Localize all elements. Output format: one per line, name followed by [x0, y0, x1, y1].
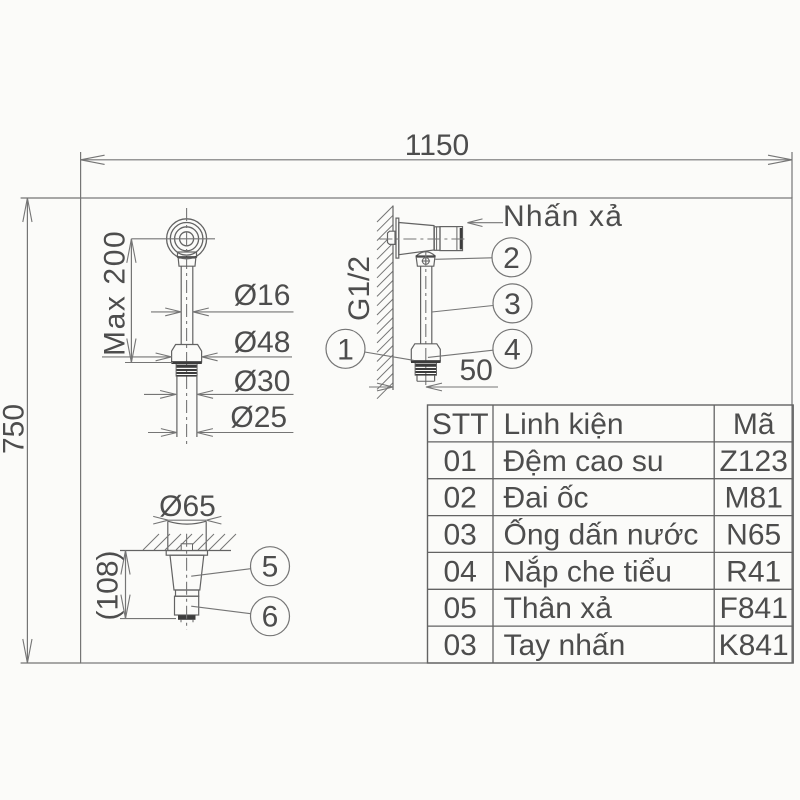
- svg-text:K841: K841: [719, 629, 789, 662]
- front view neck block: [178, 258, 196, 266]
- svg-text:03: 03: [444, 629, 477, 662]
- svg-text:Z123: Z123: [720, 445, 788, 478]
- svg-text:04: 04: [444, 555, 477, 588]
- callout circle 2: [492, 238, 531, 277]
- dimension 750 extension lines: [21, 197, 81, 199]
- svg-text:2: 2: [503, 242, 520, 275]
- svg-text:Đệm cao su: Đệm cao su: [504, 445, 664, 478]
- svg-text:5: 5: [262, 551, 279, 584]
- table column lines: [492, 405, 494, 663]
- front view valve head circles: [167, 219, 207, 259]
- svg-text:N65: N65: [726, 519, 781, 552]
- floor line: [120, 550, 231, 552]
- dimension Ø48: [102, 356, 172, 358]
- leader 6: [191, 606, 251, 614]
- bottom nut (item 6): [175, 596, 199, 615]
- dimension Ø65 line: [168, 519, 206, 521]
- dimension Ø30: [144, 393, 176, 395]
- callout circle 6: [251, 597, 290, 636]
- svg-text:1150: 1150: [405, 129, 470, 162]
- pipe stub above floor: [181, 544, 192, 551]
- side view horizontal centerline: [379, 238, 468, 240]
- front view centerline: [186, 208, 188, 445]
- table row lines: [428, 441, 794, 443]
- svg-text:Max 200: Max 200: [99, 230, 132, 356]
- front view threads (Ø30): [176, 365, 197, 368]
- dimension 50: [369, 386, 393, 388]
- svg-text:Đai ốc: Đai ốc: [504, 482, 589, 515]
- svg-text:Linh kiện: Linh kiện: [504, 408, 624, 441]
- svg-text:4: 4: [504, 333, 521, 366]
- svg-text:02: 02: [444, 482, 477, 515]
- dimension Max 200 line: [130, 239, 132, 363]
- side view vertical centerline: [425, 252, 427, 386]
- svg-text:6: 6: [262, 601, 279, 634]
- bottom tiny tip: [180, 620, 182, 623]
- callout circle 3: [493, 284, 532, 323]
- svg-text:50: 50: [460, 354, 493, 387]
- dimension Ø16: [151, 311, 181, 313]
- bottom view centerline: [186, 534, 188, 630]
- leader 2: [435, 258, 492, 260]
- nut screw: [422, 258, 429, 265]
- front view neck collar: [178, 252, 197, 257]
- svg-text:Ø16: Ø16: [234, 279, 291, 312]
- svg-text:R41: R41: [726, 555, 781, 588]
- leader 4: [428, 350, 493, 357]
- dimension (108) line: [125, 551, 127, 619]
- floor hatching: [143, 534, 236, 550]
- svg-text:Ø25: Ø25: [230, 401, 287, 434]
- side view valve body: [399, 223, 434, 255]
- callout circle 1: [326, 329, 365, 368]
- side view flange nut (item 4): [411, 344, 440, 361]
- callout circle 4: [493, 329, 532, 368]
- svg-text:Ống dấn nước: Ống dấn nước: [504, 518, 699, 552]
- front view upper tube (Ø16): [180, 266, 182, 344]
- push button cylinder: [440, 227, 463, 251]
- dimension (108) extension: [120, 618, 176, 620]
- callout circle 5: [251, 547, 290, 586]
- wall hatching: [377, 206, 393, 399]
- step band: [176, 590, 199, 596]
- dimension Ø25: [148, 432, 177, 434]
- bottom tip dark band: [178, 615, 196, 620]
- side view collar ring: [434, 227, 440, 251]
- svg-text:(108): (108): [92, 550, 125, 620]
- svg-text:Tay nhấn: Tay nhấn: [504, 629, 626, 662]
- svg-text:Nhấn xả: Nhấn xả: [503, 200, 623, 233]
- svg-text:1: 1: [337, 333, 354, 366]
- svg-text:F841: F841: [720, 592, 788, 625]
- bottom view cylinder sides: [167, 521, 169, 550]
- cone body (item 5): [170, 555, 204, 590]
- svg-text:Ø65: Ø65: [159, 490, 216, 523]
- svg-text:Ø48: Ø48: [234, 326, 291, 359]
- svg-text:3: 3: [504, 288, 521, 321]
- side view tube: [420, 266, 422, 344]
- svg-text:Nắp che tiểu: Nắp che tiểu: [504, 555, 672, 588]
- label Nhấn xả arrow: [468, 222, 504, 224]
- drawing frame border: [81, 198, 792, 663]
- leader 5: [191, 569, 251, 577]
- washer plate: [166, 551, 207, 556]
- svg-text:Ø30: Ø30: [234, 365, 291, 398]
- parts table outer border: [428, 405, 794, 663]
- leader 3: [432, 306, 493, 313]
- svg-text:Mã: Mã: [733, 408, 775, 441]
- svg-text:STT: STT: [432, 408, 489, 441]
- front view lower tube (Ø25): [176, 377, 178, 437]
- front view flange nut (Ø48): [172, 345, 202, 363]
- bottom view cylinder rim: [168, 521, 206, 524]
- dimension Max 200 extension: [125, 362, 173, 364]
- dimension 1150 line: [81, 159, 792, 161]
- front view head crosshair horizontal: [131, 238, 215, 240]
- dimension 1150 extension lines: [80, 152, 82, 198]
- pipe stub into wall G1/2: [388, 231, 396, 244]
- side view bottom stub: [416, 376, 418, 382]
- wall mounting plate: [396, 218, 399, 258]
- leader 1: [365, 352, 414, 360]
- svg-text:05: 05: [444, 592, 477, 625]
- wall face line: [392, 206, 394, 391]
- svg-text:750: 750: [0, 404, 30, 454]
- side view threads: [415, 364, 436, 367]
- svg-text:Thân xả: Thân xả: [504, 592, 613, 625]
- nut (item 2) dome: [416, 252, 435, 256]
- nut (item 2) body: [416, 257, 435, 266]
- svg-text:M81: M81: [725, 482, 783, 515]
- svg-text:03: 03: [444, 519, 477, 552]
- svg-text:01: 01: [444, 445, 477, 478]
- dimension 750 line: [26, 198, 28, 663]
- svg-text:G1/2: G1/2: [343, 256, 376, 321]
